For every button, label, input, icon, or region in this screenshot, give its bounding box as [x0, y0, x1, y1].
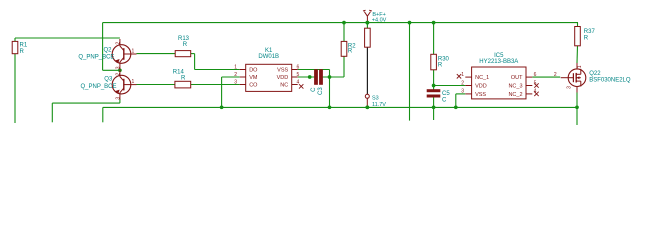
op-amp U? balance IC IC5 HY2213-BB3A	[461, 53, 536, 99]
svg-text:R: R	[584, 36, 589, 42]
svg-text:2: 2	[461, 80, 464, 86]
svg-text:3: 3	[566, 86, 572, 89]
wire VDD junction to IC5 pin2	[434, 85, 466, 87]
wire R30 bottom to C5 and VDD junction	[432, 70, 436, 91]
svg-text:VSS: VSS	[475, 92, 486, 98]
svg-text:R: R	[181, 75, 186, 81]
wire C5 bottom to B- rail and stub below	[432, 97, 436, 120]
svg-text:VSS: VSS	[277, 68, 288, 74]
svg-text:R: R	[348, 49, 353, 55]
svg-text:3: 3	[461, 89, 464, 95]
svg-text:R1: R1	[20, 43, 28, 49]
svg-text:BSF030NE2LQ: BSF030NE2LQ	[589, 78, 631, 84]
no-connect IC5 pin4	[534, 92, 538, 96]
wire bottom B- rail	[103, 107, 577, 122]
wire B+ rail to resistor above S3	[366, 23, 368, 29]
wire K1 pin5 VDD right	[298, 75, 344, 79]
svg-text:+4.0V: +4.0V	[372, 17, 387, 23]
wire R2 bottom to VDD net	[343, 56, 345, 77]
svg-text:R37: R37	[584, 29, 596, 35]
svg-text:4: 4	[534, 89, 537, 95]
svg-text:6: 6	[534, 72, 537, 78]
svg-text:R: R	[438, 63, 443, 69]
svg-text:5: 5	[297, 72, 300, 78]
svg-text:S3: S3	[372, 96, 379, 102]
svg-text:C5: C5	[442, 91, 450, 97]
svg-text:2: 2	[554, 72, 557, 78]
wire mid vertical net (crosses B- rail)	[408, 21, 412, 121]
wire R1 top to Q2 collector	[15, 38, 120, 41]
svg-text:NC: NC	[280, 83, 288, 89]
junction B- rail at x367	[366, 105, 370, 109]
wire K1 pin6 VSS right and down to B- rail	[298, 70, 332, 110]
junction S3 net at B+ rail	[366, 21, 370, 25]
no-connect K1 pin4 NC	[299, 84, 303, 88]
svg-text:R: R	[183, 42, 188, 48]
resistor R37	[575, 27, 596, 46]
op-amp U? protection IC K1 DW01B	[234, 48, 299, 92]
transistor Q3	[81, 70, 137, 100]
wire R1 bottom down	[14, 54, 16, 123]
svg-text:VDD: VDD	[475, 84, 487, 90]
svg-text:2: 2	[234, 72, 237, 78]
wire IC5 pin3 VSS to B- rail	[454, 94, 465, 109]
svg-text:NC_1: NC_1	[475, 75, 489, 81]
svg-text:6: 6	[297, 64, 300, 70]
svg-text:4: 4	[297, 79, 300, 85]
wire B+ rail down to R30	[432, 21, 436, 55]
svg-text:1: 1	[132, 48, 135, 54]
svg-text:C: C	[442, 97, 447, 103]
svg-text:2: 2	[115, 42, 121, 45]
wire left vertical from B+ rail corner down to Q3 collector junction	[103, 23, 120, 71]
svg-text:2: 2	[115, 73, 121, 76]
wire R37 bottom to Q22 drain	[576, 46, 579, 63]
wire R37 chain top	[577, 23, 580, 27]
wire black net S3	[366, 47, 368, 94]
no-connect IC5 pin1	[457, 74, 461, 78]
svg-text:Q22: Q22	[589, 71, 601, 77]
capacitor C5	[427, 90, 450, 104]
svg-text:1: 1	[132, 79, 135, 85]
no-connect IC5 pin5	[534, 83, 538, 87]
svg-text:NC_2: NC_2	[508, 92, 522, 98]
transistor Q22 MOSFET	[554, 63, 631, 93]
svg-text:VM: VM	[249, 75, 258, 81]
svg-text:Q2: Q2	[104, 48, 113, 54]
svg-text:DW01B: DW01B	[258, 54, 279, 60]
wire R13 to K1 pin1 DO	[191, 54, 240, 70]
svg-text:NC_3: NC_3	[508, 84, 522, 90]
svg-text:VDD: VDD	[277, 75, 289, 81]
wire K1 pin2 VM down to B- rail	[220, 77, 240, 109]
resistor R14	[173, 70, 191, 88]
wire Q22 source to B- rail and stub below	[575, 93, 579, 126]
svg-text:OUT: OUT	[511, 75, 523, 81]
svg-text:R13: R13	[178, 36, 190, 42]
transistor Q2	[78, 39, 136, 69]
svg-text:11.7V: 11.7V	[372, 102, 386, 108]
svg-text:HY2213-BB3A: HY2213-BB3A	[479, 59, 518, 65]
svg-text:CO: CO	[249, 83, 258, 89]
resistor R1	[12, 41, 28, 55]
svg-text:3: 3	[115, 66, 121, 69]
svg-text:5: 5	[534, 80, 537, 86]
wire top B+ rail	[103, 22, 578, 24]
svg-text:1: 1	[234, 64, 237, 70]
svg-text:3: 3	[234, 79, 237, 85]
svg-text:R: R	[20, 49, 25, 55]
capacitor C3 (rotated)	[311, 70, 324, 95]
svg-text:Q_PNP_BCE: Q_PNP_BCE	[81, 84, 117, 90]
resistor R30	[431, 54, 450, 70]
wire R14 to K1 pin3 CO	[191, 84, 240, 86]
svg-text:1: 1	[461, 72, 464, 78]
svg-text:Q_PNP_BCE: Q_PNP_BCE	[78, 55, 114, 61]
svg-text:Q3: Q3	[104, 76, 113, 82]
node S3 open-end 11.7V	[365, 94, 386, 109]
power flag B+F+ +4.0V	[363, 10, 387, 24]
svg-text:C3: C3	[318, 87, 324, 95]
junction Q2 emitter / Q3 collector	[118, 68, 122, 72]
resistor R13	[175, 36, 191, 57]
svg-text:C: C	[311, 87, 317, 92]
wire Q3 base to R14	[137, 84, 175, 86]
resistor R2	[341, 41, 356, 56]
wire IC5 OUT to Q22 gate	[532, 76, 560, 78]
svg-text:IC5: IC5	[494, 53, 504, 59]
svg-text:1: 1	[577, 65, 583, 68]
resistor (unlabeled above S3)	[365, 28, 371, 47]
svg-text:3: 3	[115, 97, 121, 100]
wire R2 top to B+ rail	[342, 21, 346, 42]
wire Q2 base to R13	[137, 53, 176, 55]
wire Q3 emitter down-left	[52, 99, 120, 122]
svg-text:DO: DO	[249, 68, 258, 74]
